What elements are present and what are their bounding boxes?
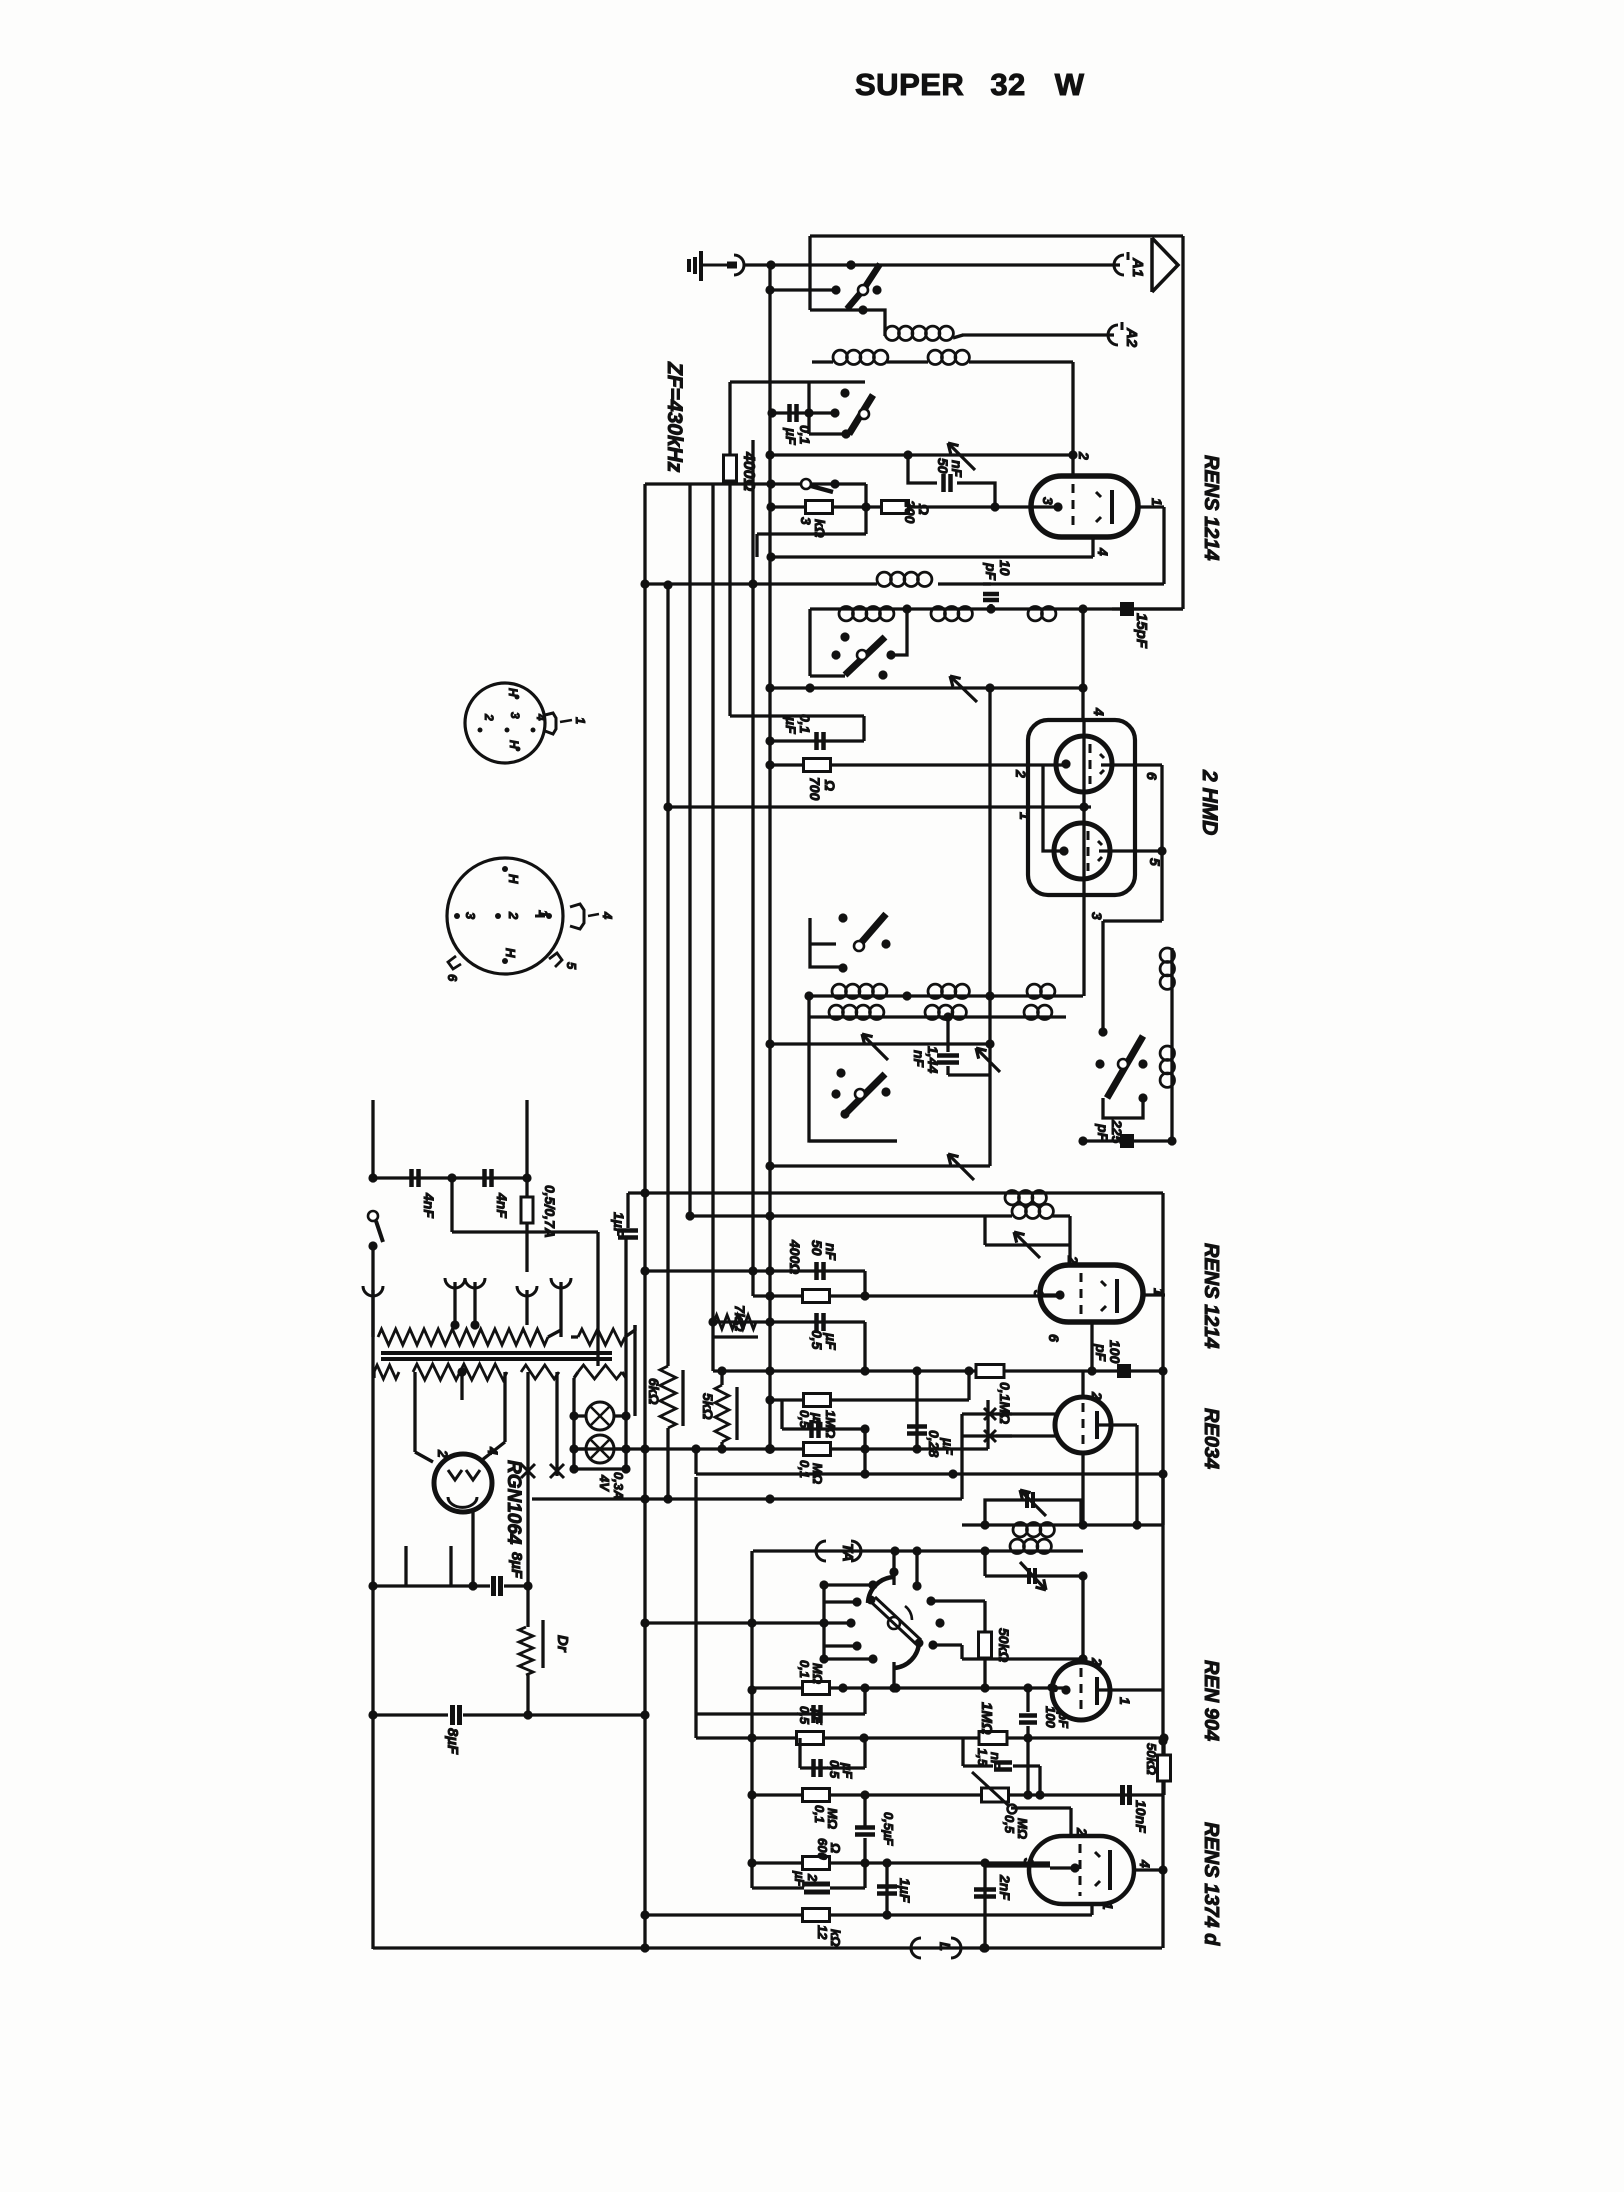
tube2 pin1 wire — [1143, 1293, 1165, 1296]
wire A1 line y265 — [743, 265, 1120, 290]
label 0.5uF no2 — [797, 1410, 838, 1438]
switch S3 contacts — [831, 632, 895, 679]
svg-text:200: 200 — [902, 499, 918, 524]
socket big pins — [454, 866, 552, 964]
svg-text:1: 1 — [1117, 1697, 1133, 1705]
svg-text:RE034: RE034 — [1200, 1408, 1222, 1469]
svg-text:6kΩ: 6kΩ — [646, 1378, 662, 1405]
capacitor 0.28uF — [907, 1371, 927, 1454]
tube RENS1214 no2 — [1040, 1265, 1143, 1322]
tuner2 line y609 — [810, 604, 1183, 613]
socket big label4 — [588, 911, 615, 920]
label 2HMD — [1198, 769, 1221, 835]
label 0.5uF b — [827, 1760, 855, 1779]
wire pin3 1374 — [985, 1864, 1050, 1867]
potentiometer 7kohm — [712, 1305, 758, 1337]
svg-text:ZF=430kHz: ZF=430kHz — [663, 361, 686, 473]
tube1 pin1 wire — [1138, 507, 1164, 584]
potentiometer 6kohm — [646, 1366, 683, 1428]
svg-text:0,1: 0,1 — [797, 1660, 812, 1678]
capacitor 1uF psu — [618, 1231, 638, 1238]
padder trimmer — [976, 1048, 1000, 1072]
transformer sec HV — [413, 1364, 507, 1380]
tube2 grid dash — [1080, 1273, 1083, 1315]
switch S5 frame — [809, 1070, 897, 1141]
label 0.5uF a — [797, 1706, 825, 1725]
label pin4 2HMD — [1091, 707, 1107, 716]
2HMD lower diode — [1054, 823, 1110, 879]
label 1.5nF — [975, 1748, 1003, 1769]
osc switch S4 wedge — [854, 914, 886, 951]
capacitor 10pF — [983, 584, 999, 609]
HV left lead — [415, 1372, 433, 1462]
label 700ohm — [807, 777, 838, 801]
svg-text:RENS 1214: RENS 1214 — [1200, 1243, 1222, 1349]
osc switch S4 frame — [810, 918, 843, 967]
svg-text:Dr: Dr — [554, 1635, 571, 1653]
svg-text:4: 4 — [1095, 547, 1111, 556]
label 2nF — [997, 1874, 1013, 1900]
svg-text:MΩ: MΩ — [825, 1808, 840, 1829]
RGN1064 filaments — [448, 1470, 480, 1507]
2HMD pin3 wire — [1082, 895, 1085, 996]
HV center tap — [460, 1372, 463, 1400]
svg-text:2: 2 — [482, 713, 496, 721]
capacitor 50nF no2 — [817, 1262, 824, 1280]
svg-text:nF: nF — [949, 460, 965, 478]
RE034 cathode wire — [1081, 1453, 1084, 1526]
rotary right c3 — [933, 1645, 1088, 1664]
tuner2 coil L7 — [1028, 607, 1056, 621]
tube1 grid dash — [1072, 484, 1075, 528]
trimmer arrow y1166 — [948, 1154, 974, 1180]
resistor 1Mohm — [979, 1732, 1007, 1745]
fil lead a — [526, 1372, 529, 1586]
wire y1915 — [640, 1910, 1092, 1919]
label RENS1374d — [1200, 1822, 1222, 1946]
wire y1738 — [696, 1477, 1169, 1743]
svg-text:6: 6 — [445, 974, 460, 982]
capacitor 2uF — [752, 1863, 865, 1892]
resistor 400ohm no2 — [803, 1290, 830, 1303]
switch row y484 — [645, 479, 866, 488]
svg-text:µF: µF — [783, 716, 799, 734]
label 0.28uF — [926, 1430, 956, 1457]
IF1 sec right — [1068, 1216, 1071, 1265]
tube1 pin labels — [1040, 451, 1165, 556]
bus x730 lower — [728, 481, 731, 716]
switch S5 wedge — [845, 1074, 885, 1114]
svg-text:2: 2 — [1089, 1391, 1105, 1400]
svg-text:RGN1064: RGN1064 — [503, 1460, 524, 1545]
bus x690 — [688, 484, 691, 1216]
svg-text:8µF: 8µF — [508, 1552, 525, 1579]
trimmer arrow row1 — [862, 1034, 888, 1060]
rotary right c2 — [928, 1618, 944, 1649]
capacitor 4nF a — [412, 1169, 419, 1187]
label 15pF — [1133, 613, 1150, 649]
svg-text:4: 4 — [1137, 1859, 1153, 1868]
label RGN1064 — [503, 1460, 524, 1545]
2HMD upper electrodes — [1061, 744, 1104, 784]
switch S1a frame — [810, 305, 868, 314]
wire y534 frame — [757, 507, 866, 557]
resistor 0.1Mohm g — [803, 1682, 830, 1695]
resistor 50kohm no2 — [1158, 1741, 1171, 1795]
label 10pF — [983, 560, 1013, 581]
wire y1296 — [753, 1291, 1060, 1300]
wire y1525 — [962, 1520, 1163, 1529]
title SUPER 32 W — [855, 67, 1085, 102]
label REN904 — [1200, 1660, 1222, 1741]
RGN1064 pin labels — [435, 1446, 501, 1458]
rotary left rail — [822, 1585, 825, 1659]
svg-text:4nF: 4nF — [494, 1192, 510, 1218]
svg-text:5: 5 — [1147, 858, 1163, 866]
switch S1b contacts — [840, 388, 850, 438]
wire 0.1uF frame y716 — [730, 716, 864, 741]
svg-text:0,3A: 0,3A — [611, 1472, 626, 1499]
label 50nF no2 — [809, 1240, 839, 1261]
choke Dr — [519, 1586, 543, 1715]
label 400ohm — [740, 451, 757, 492]
fil lead b — [555, 1372, 558, 1476]
svg-text:2: 2 — [1013, 769, 1029, 778]
svg-text:0,5: 0,5 — [797, 1410, 812, 1429]
svg-text:TA: TA — [839, 1543, 856, 1562]
wire y807 pin1 — [663, 802, 1091, 811]
bus x645 — [640, 484, 649, 1949]
2HMD pin labels — [1013, 769, 1163, 920]
grid wire REN904 — [1078, 1576, 1087, 1664]
socket big circle — [447, 858, 563, 974]
right rail bottom — [1161, 1870, 1164, 1948]
osc anode line y584 — [640, 579, 877, 588]
RENS1374d pin labels — [1021, 1827, 1153, 1910]
tube 2HMD — [1028, 720, 1135, 895]
wire y1141 — [809, 1136, 1177, 1145]
mains right x527 — [525, 1100, 528, 1197]
svg-text:pF: pF — [983, 562, 999, 581]
svg-text:6: 6 — [1144, 772, 1160, 780]
heater connector c — [551, 1278, 571, 1337]
wire A2 line y335 — [962, 333, 1114, 336]
svg-text:1: 1 — [1100, 1902, 1116, 1910]
REN904 anode — [1095, 1677, 1099, 1705]
label 600ohm — [815, 1838, 843, 1860]
tuner2 coil L6 — [931, 607, 972, 621]
label 100pF sq — [1093, 1340, 1123, 1364]
label 0.5uF c — [881, 1812, 896, 1847]
resistor 50kohm no1 — [979, 1632, 992, 1658]
rotary rotate arrow — [905, 1606, 912, 1620]
wire y1178 — [373, 1173, 532, 1182]
2HMD inner link — [1043, 765, 1064, 851]
label 50nF — [935, 458, 965, 478]
wire 50k1 — [983, 1601, 986, 1633]
label Dr — [554, 1635, 571, 1653]
connector A2 — [1108, 322, 1122, 345]
svg-text:100: 100 — [1043, 1706, 1058, 1728]
wire y1232 — [452, 1178, 598, 1366]
rotary switch arc up — [868, 1577, 894, 1603]
label ZF=430kHz — [663, 361, 686, 473]
wire y1474 — [696, 1449, 1163, 1479]
wire y1795 — [752, 1790, 1164, 1799]
tube RENS1374d — [1029, 1836, 1134, 1904]
fuse 0.5/0.7A — [521, 1197, 533, 1223]
mains left x373 — [371, 1100, 374, 1178]
tube2 cathode — [1043, 1290, 1065, 1299]
svg-text:kΩ: kΩ — [828, 1929, 843, 1946]
svg-text:H: H — [506, 874, 521, 884]
transformer sec fil — [521, 1365, 559, 1379]
rotary switch pivot — [888, 1617, 900, 1629]
label RE034 — [1200, 1408, 1222, 1469]
fil X a — [521, 1464, 535, 1478]
connector L — [911, 1938, 961, 1958]
wire y1400 — [765, 1371, 969, 1405]
IF2 coil top — [1013, 1523, 1054, 1537]
svg-text:0,1: 0,1 — [812, 1805, 827, 1823]
grid wire tube1 pin2 — [1068, 362, 1077, 476]
svg-text:1MΩ: 1MΩ — [978, 1702, 995, 1735]
osc coil L9 — [928, 984, 969, 998]
mains switch — [368, 1173, 383, 1272]
svg-text:µF: µF — [810, 1708, 825, 1725]
capacitor 100pF sq — [1117, 1364, 1131, 1378]
svg-text:0,5: 0,5 — [797, 1706, 812, 1725]
transformer core — [381, 1353, 612, 1359]
HV right lead — [482, 1372, 505, 1460]
bus x668 — [663, 580, 672, 1366]
wire x865 avc — [863, 1429, 866, 1477]
RENS1374d grid dash — [1079, 1844, 1082, 1896]
capacitor 1.44nF — [937, 1017, 959, 1075]
heater U loop — [406, 1546, 451, 1586]
label 50kohm no1 — [996, 1628, 1012, 1662]
svg-text:pF: pF — [1093, 1343, 1109, 1362]
bus x809 tuner1 — [807, 382, 810, 434]
IF2 trim frame bottom — [985, 1551, 1088, 1581]
rotary switch arc down — [894, 1642, 919, 1668]
svg-text:3: 3 — [1031, 1290, 1047, 1298]
bus x713 — [711, 484, 714, 1371]
wire y688 — [765, 683, 1087, 692]
transformer primary — [373, 1272, 561, 1345]
RE034 heater X — [984, 1408, 1058, 1442]
RGN1064 cathode — [471, 1512, 474, 1586]
osc row2 y1017 — [809, 1012, 1066, 1021]
rotary contact r4 — [824, 1641, 862, 1650]
bus x730 upper — [728, 382, 731, 456]
svg-text:12: 12 — [815, 1925, 830, 1940]
svg-text:L: L — [936, 1942, 953, 1951]
RF coil L2 — [812, 350, 928, 364]
svg-text:1: 1 — [1149, 498, 1165, 506]
RE034 pin2 label — [1089, 1391, 1105, 1400]
wire x865 down2 — [863, 1322, 866, 1371]
bus x752 — [747, 1551, 756, 1888]
label 4V 0.3A — [597, 1472, 626, 1499]
svg-text:3: 3 — [508, 712, 522, 719]
ground symbol — [689, 251, 737, 281]
wire y557 — [766, 552, 1093, 561]
label 4nF b — [494, 1192, 510, 1218]
svg-text:0,5: 0,5 — [1002, 1815, 1017, 1834]
resistor 400ohm — [724, 455, 737, 481]
capacitor 100pF ren — [1019, 1688, 1037, 1738]
transformer sec small — [374, 1365, 399, 1379]
resistor 0.1Mohm no2 — [804, 1394, 831, 1407]
label 10nF — [1133, 1800, 1149, 1833]
label 0.1uF — [783, 425, 813, 445]
lamp 1 — [574, 1402, 626, 1430]
svg-text:4: 4 — [600, 911, 615, 920]
label A1 — [1129, 257, 1146, 277]
rotary contact r1 — [819, 1580, 877, 1589]
lamp rail right — [621, 1238, 630, 1474]
rotary contact r5 — [819, 1654, 877, 1663]
IF2 trimmer top — [1020, 1490, 1046, 1516]
2HMD pin4 wire — [1081, 609, 1084, 720]
rotary right c1 — [926, 1596, 985, 1605]
svg-text:RENS 1214: RENS 1214 — [1200, 455, 1222, 561]
svg-text:8µF: 8µF — [444, 1728, 461, 1755]
trimmer arrow on y455 — [948, 443, 975, 470]
tube2 pin labels — [1031, 1255, 1167, 1342]
wire y1688 — [752, 1683, 1066, 1692]
tube RE034 — [1055, 1397, 1111, 1453]
IF2 coil bottom — [1010, 1539, 1051, 1553]
svg-text:7kΩ: 7kΩ — [732, 1305, 748, 1332]
wire x865 down — [863, 1271, 866, 1296]
wire x962 heater — [962, 1414, 1012, 1499]
osc coil L10 — [1027, 984, 1055, 998]
capacitor 0.5uF no2 — [782, 1400, 870, 1438]
connector mains L1 — [363, 1286, 383, 1949]
tube1 pin4 wire — [1091, 537, 1094, 557]
tube2 pin4 wire — [1087, 1322, 1096, 1376]
2HMD center wire — [1082, 720, 1085, 895]
label 4nF a — [421, 1192, 437, 1218]
connector A1 — [1114, 252, 1128, 275]
resistor 600ohm — [803, 1857, 830, 1870]
2HMD pin6 wire — [1101, 765, 1162, 851]
label 200ohm — [902, 499, 932, 524]
rotary switch lever — [867, 1596, 924, 1648]
IF2 trimmer bottom — [1020, 1562, 1046, 1590]
outer box top y236 — [810, 234, 1183, 237]
IF1 coil — [1005, 1191, 1046, 1205]
svg-text:µF: µF — [823, 1332, 839, 1350]
tuner2 box left — [808, 609, 811, 676]
svg-text:A1: A1 — [1129, 257, 1146, 277]
rotary contact r3 — [640, 1618, 855, 1627]
junction — [766, 260, 775, 269]
switch S1a wedge — [847, 264, 880, 309]
svg-text:µF: µF — [940, 1437, 956, 1455]
label 1uF psu — [611, 1212, 627, 1237]
svg-text:1: 1 — [573, 717, 588, 724]
capacitor 0.1uF hf — [817, 732, 824, 750]
svg-text:4nF: 4nF — [421, 1192, 437, 1218]
IF1 trimmer row — [985, 1232, 1070, 1258]
osc coil L9b — [925, 1005, 966, 1019]
capacitor 225pF — [1120, 1134, 1134, 1148]
svg-text:50: 50 — [809, 1240, 825, 1256]
label 0.5uF no1 — [809, 1330, 839, 1350]
capacitor 10nF — [1123, 1785, 1130, 1805]
wire y1044 — [765, 1039, 994, 1048]
switch S5 contacts — [831, 1068, 890, 1118]
IF2 right link — [1161, 1474, 1164, 1525]
svg-text:50kΩ: 50kΩ — [1144, 1743, 1159, 1775]
wire y1863 — [752, 1858, 1050, 1867]
capacitor 0.1uF antenna — [790, 404, 797, 422]
RE034 anode wire — [1097, 1425, 1142, 1530]
svg-text:3: 3 — [463, 912, 478, 920]
wire 50k1 down — [980, 1657, 989, 1693]
bus x770 — [765, 265, 774, 1449]
label 12kohm — [815, 1925, 843, 1946]
svg-text:5: 5 — [564, 962, 579, 970]
svg-text:0,5/0,7A: 0,5/0,7A — [542, 1185, 558, 1238]
tube REN904 — [1052, 1662, 1110, 1720]
resistor 3kohm — [806, 501, 833, 514]
switch S3 frame — [810, 609, 907, 676]
wire y765 pin2 — [765, 760, 1066, 769]
svg-text:2nF: 2nF — [997, 1874, 1013, 1900]
svg-text:400Ω: 400Ω — [787, 1239, 803, 1274]
svg-text:2: 2 — [805, 1873, 820, 1882]
osc coil L10b — [1024, 1005, 1052, 1019]
label 8uF a — [508, 1552, 525, 1579]
svg-text:10nF: 10nF — [1133, 1800, 1149, 1833]
svg-text:1MΩ: 1MΩ — [823, 1410, 838, 1438]
svg-text:4: 4 — [485, 1446, 501, 1455]
HT rail x1163 — [1158, 1193, 1167, 1870]
tube RENS1214 no1 — [1031, 476, 1138, 537]
wire y1499 — [532, 1494, 962, 1503]
svg-text:15pF: 15pF — [1133, 613, 1150, 649]
label 50kohm no2 — [1144, 1743, 1159, 1775]
label 3kohm — [798, 517, 828, 538]
capacitor 0.5uF no1 — [817, 1313, 824, 1331]
resistor 0.1Mohm no3 — [804, 1443, 831, 1456]
svg-text:3: 3 — [1040, 497, 1056, 505]
svg-text:3: 3 — [1089, 912, 1105, 920]
antenna coil L1 — [885, 326, 963, 340]
IF2 trim frame top — [985, 1500, 1081, 1525]
svg-text:0,28: 0,28 — [926, 1430, 942, 1457]
label 8uF b — [444, 1728, 461, 1755]
osc coil L8b — [829, 1005, 884, 1019]
label fuse — [542, 1185, 558, 1238]
wire x866 — [864, 484, 867, 507]
label 0.1Mohm g — [797, 1660, 825, 1684]
stack cap 0.5uF a — [696, 1688, 865, 1723]
wire y584 right — [938, 582, 1164, 585]
IF1 primary y1193 — [628, 1188, 1163, 1228]
svg-text:nF: nF — [823, 1243, 839, 1261]
wire x1028 ren — [1026, 1738, 1029, 1795]
connector TA — [816, 1541, 861, 1561]
svg-text:µF: µF — [783, 427, 799, 445]
wire x988 up — [986, 1400, 989, 1449]
osc coil L4 — [877, 572, 932, 586]
wire y382 — [730, 380, 865, 383]
